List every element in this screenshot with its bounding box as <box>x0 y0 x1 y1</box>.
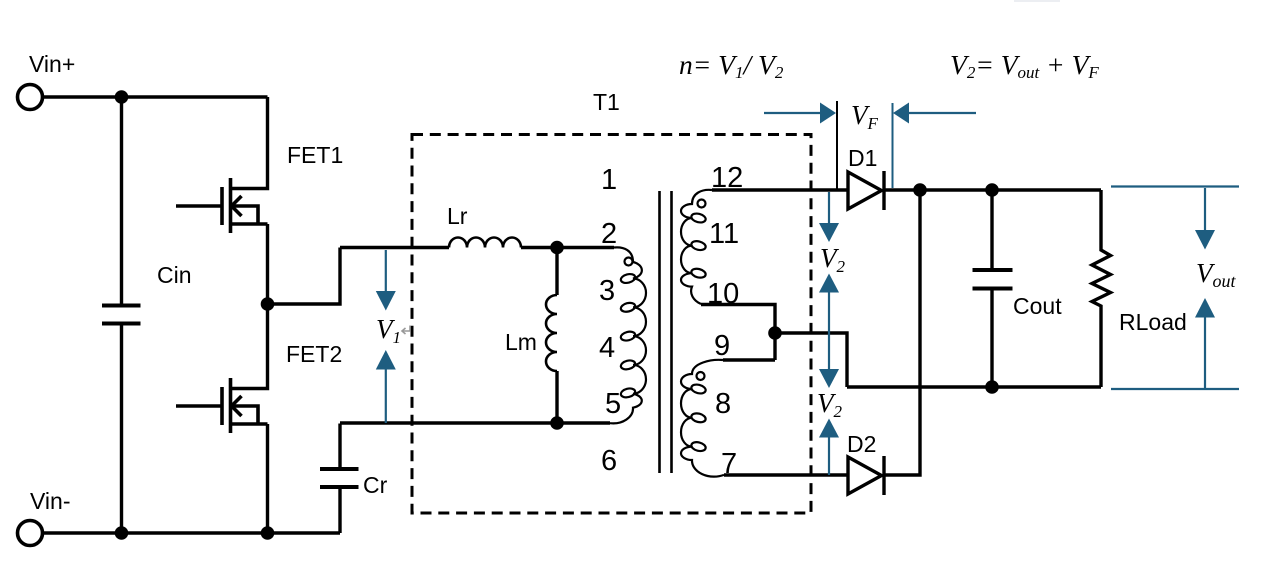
annotation V2 bottom arrows <box>828 333 830 370</box>
arrowhead Vout up <box>1195 298 1215 318</box>
junction dot input top <box>115 90 129 104</box>
svg-text:5: 5 <box>605 388 621 420</box>
arrowhead Vout down <box>1195 230 1215 250</box>
svg-text:8: 8 <box>715 388 731 420</box>
wire Cin bottom <box>120 324 123 534</box>
diode D1 <box>848 171 884 210</box>
svg-text:12: 12 <box>711 162 743 194</box>
junction dot center tap <box>768 326 782 340</box>
transformer secondary winding bottom <box>681 360 724 477</box>
capacitor Cout <box>990 190 993 270</box>
annotation VF lines <box>892 103 894 188</box>
junction dot Lm top <box>550 241 564 255</box>
svg-text:Lr: Lr <box>447 203 468 229</box>
junction dot bottom rail left <box>115 526 129 540</box>
diode D2 <box>848 456 884 495</box>
svg-text:2: 2 <box>601 218 617 250</box>
svg-text:T1: T1 <box>593 89 620 115</box>
wire pin12 to D1 <box>712 188 848 191</box>
svg-text:9: 9 <box>714 330 730 362</box>
arrowhead V2 top up <box>819 274 839 293</box>
junction dot Cout bottom <box>985 380 999 394</box>
wire bottom input rail <box>43 531 340 534</box>
svg-text:RLoad: RLoad <box>1119 309 1187 335</box>
transformer primary winding <box>610 247 646 423</box>
svg-text:FET2: FET2 <box>286 341 342 367</box>
svg-text:1: 1 <box>601 164 617 196</box>
wire center tap to output return <box>775 333 847 387</box>
svg-text:VF: VF <box>851 100 879 133</box>
dashed box T1 <box>412 135 811 514</box>
transformer core <box>660 191 672 473</box>
svg-text:Cr: Cr <box>363 472 388 498</box>
wire Lr to primary <box>521 246 614 249</box>
svg-text:V2: V2 <box>820 243 846 276</box>
svg-text:Cin: Cin <box>157 262 192 288</box>
svg-text:V2: V2 <box>817 388 843 421</box>
annotation V1 arrows <box>385 250 387 292</box>
wire pin9 <box>723 358 775 361</box>
svg-text:Vin+: Vin+ <box>29 51 75 77</box>
terminal Vin- <box>18 521 43 546</box>
svg-text:Vin-: Vin- <box>30 488 71 514</box>
junction dot Cout top <box>985 183 999 197</box>
terminal Vin+ <box>18 85 43 110</box>
wire pin10 to center tap <box>701 305 775 361</box>
return mark <box>402 326 410 335</box>
svg-text:7: 7 <box>721 448 737 480</box>
svg-text:Cout: Cout <box>1013 293 1062 319</box>
wire FET1 drain from rail <box>231 97 268 189</box>
wire D1 cathode to output <box>884 188 1101 191</box>
inductor Lr <box>449 238 521 248</box>
wire output return rail <box>847 385 1101 388</box>
annotation VF black marker line <box>836 101 838 190</box>
svg-text:D1: D1 <box>848 145 877 171</box>
faint top artifact <box>1014 0 1060 2</box>
wire Cin top <box>120 97 123 306</box>
svg-text:Lm: Lm <box>505 329 537 355</box>
wire pin7 to D2 <box>724 473 848 476</box>
arrowhead VF left-pointing <box>893 103 909 124</box>
annotation Vout bracket <box>1111 185 1239 187</box>
arrowhead V2 bottom up <box>819 419 839 438</box>
wire primary bottom <box>340 421 610 424</box>
svg-text:4: 4 <box>599 332 615 364</box>
capacitor Cin <box>102 306 141 324</box>
svg-text:3: 3 <box>599 275 615 307</box>
arrowhead V1 down <box>376 291 396 311</box>
junction dot half-bridge midpoint <box>261 297 275 311</box>
svg-text:Vout: Vout <box>1196 258 1237 291</box>
svg-text:V1: V1 <box>376 314 401 347</box>
arrowhead VF right-pointing <box>820 103 836 124</box>
wire midpoint to resonant tank <box>268 248 341 305</box>
svg-text:10: 10 <box>707 278 739 310</box>
arrowhead V1 up <box>376 350 396 370</box>
arrowhead V2 bottom down <box>819 369 839 388</box>
svg-text:FET1: FET1 <box>287 142 343 168</box>
transistor FET1 <box>176 178 268 233</box>
wire D2 cathode up to output <box>884 190 920 475</box>
transistor FET2 <box>176 378 268 433</box>
resistor RLoad <box>1092 190 1111 387</box>
wire FET2 drain <box>231 304 268 389</box>
arrowhead V2 top down <box>819 223 839 242</box>
capacitor Cr <box>338 487 341 533</box>
annotation V2 top arrows <box>828 192 830 224</box>
junction dot Lm bottom <box>550 416 564 430</box>
svg-text:V2= Vout + VF: V2= Vout + VF <box>950 49 1099 82</box>
svg-text:6: 6 <box>601 445 617 477</box>
wire to Lr <box>340 246 449 249</box>
junction dot bottom rail right <box>261 526 275 540</box>
transformer secondary winding top <box>681 190 712 304</box>
wire top input rail <box>43 95 268 98</box>
svg-text:11: 11 <box>709 218 739 250</box>
inductor Lm <box>555 248 558 296</box>
svg-text:D2: D2 <box>847 431 876 457</box>
svg-text:n= V1/ V2: n= V1/ V2 <box>679 49 784 82</box>
junction dot D-join <box>913 183 927 197</box>
wire FET2 source down <box>266 424 269 533</box>
wire FET1 source down <box>266 224 269 304</box>
